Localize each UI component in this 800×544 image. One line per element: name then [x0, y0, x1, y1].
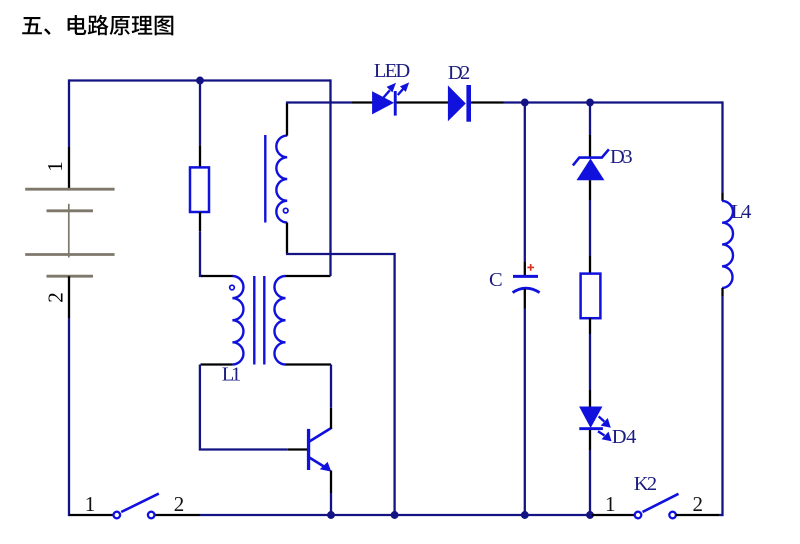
- zener diode D3 cathode bar with bent ends: [573, 149, 609, 165]
- pin: emitter pin stub (black): [330, 471, 332, 494]
- wire: D3 branch upper (navy): [589, 103, 591, 136]
- svg-text:L1: L1: [222, 363, 242, 385]
- svg-text:2: 2: [693, 492, 704, 516]
- wire: top distribution rail to L4 branch: [504, 101, 723, 103]
- inductor: feedback winding (4 turns, bumps facing left): [276, 136, 287, 223]
- node: junction dot D4 branch to rail: [586, 511, 594, 519]
- diode D2 cathode bar: [466, 85, 471, 122]
- title 五、电路原理图: [22, 15, 173, 36]
- pin: capacitor top pin stub (black): [524, 262, 526, 275]
- wire: emitter down to ground rail (navy): [330, 493, 332, 515]
- svg-text:K2: K2: [634, 473, 657, 495]
- wire: L4 branch upper (navy): [721, 101, 723, 193]
- svg-text:C: C: [489, 269, 503, 291]
- pin: D4 anode pin stub (black): [589, 390, 591, 407]
- battery B1 inner connector line: [68, 204, 70, 258]
- switch S1 contact circle 1: [114, 512, 121, 519]
- svg-text:D3: D3: [610, 146, 633, 168]
- pin: L1 right winding bottom lead (black): [286, 363, 332, 365]
- pin: R2 top pin stub (black): [589, 256, 591, 275]
- pin: D3 anode pin stub (black): [589, 180, 591, 200]
- svg-text:1: 1: [85, 492, 96, 516]
- capacitor C positive plate: [513, 275, 538, 278]
- switch K2 contact circle 1: [635, 512, 642, 519]
- LED D4 triangle (pointing down): [579, 407, 602, 429]
- svg-text:L4: L4: [731, 201, 751, 223]
- node: junction dot capacitor to rail: [521, 511, 529, 519]
- wire: battery negative lead down to ground rail (navy): [68, 318, 70, 516]
- LED cathode bar: [394, 91, 397, 116]
- switch S1 contact circle 2: [148, 512, 155, 519]
- wire: collector up to L1 right winding bottom (navy): [330, 365, 332, 408]
- wire: capacitor branch upper (navy): [524, 103, 526, 263]
- battery B1 long plate 1: [25, 188, 114, 191]
- D4 emission arrow 2: [598, 431, 605, 435]
- pin: rail stub from D4 junction to switch K2 (black): [592, 514, 635, 516]
- wire: ground rail main run (navy): [200, 514, 592, 516]
- transistor Q1 emitter arrow head: [320, 462, 332, 472]
- wire: feedback winding top to LED (navy): [286, 101, 352, 103]
- red plus sign of polarized capacitor: [527, 264, 534, 271]
- svg-text:D2: D2: [448, 62, 470, 84]
- svg-text:1: 1: [43, 161, 67, 172]
- transformer L1 core line 2: [263, 276, 265, 365]
- wire: D4 to ground rail (navy): [589, 450, 591, 515]
- node: junction dot feedback return to rail: [391, 511, 399, 519]
- battery B1 short plate 1: [47, 209, 94, 212]
- switch S1 blade: [121, 494, 159, 512]
- wire: capacitor bottom to ground rail (navy): [524, 309, 526, 516]
- zener diode D3 triangle (pointing up): [577, 159, 605, 181]
- pin: D3 cathode pin stub (black): [589, 135, 591, 158]
- wire: feedback winding bottom to right return branch: [286, 254, 395, 515]
- node: junction dot on top rail at resistor branch: [196, 77, 204, 85]
- wire: L1 left winding bottom down and right to transistor base: [200, 365, 288, 450]
- wire: battery positive lead (navy upper part): [68, 79, 70, 147]
- wire: resistor bottom down to L1 primary top corner: [200, 231, 203, 276]
- pin: battery negative pin stub (black): [68, 276, 70, 318]
- pin: resistor top pin stub (black): [199, 145, 201, 168]
- node: junction dot emitter to rail: [327, 511, 335, 519]
- resistor R1 (left bias resistor): [190, 167, 209, 212]
- svg-text:LED: LED: [374, 60, 410, 82]
- LED emission arrow 2: [398, 88, 404, 95]
- wire: top rail from battery + to transformer branch: [69, 79, 331, 81]
- wire: rail corner to L4 (navy): [719, 514, 723, 516]
- pin: L1 left winding bottom lead (black): [201, 363, 233, 365]
- switch K2 blade: [643, 494, 679, 512]
- svg-text:1: 1: [605, 492, 616, 516]
- wire: top rail corner down to L1 right winding top: [329, 79, 331, 276]
- pin: rail stub from K2 to L4 corner (black): [676, 514, 719, 516]
- pin: LED anode pin stub (black): [352, 101, 373, 103]
- LED D4 cathode bar: [579, 427, 603, 430]
- transistor Q1 base bar: [307, 429, 310, 470]
- battery B1 short plate 2: [47, 275, 94, 278]
- pin: battery positive pin stub (black): [68, 147, 70, 190]
- svg-text:D4: D4: [612, 426, 637, 448]
- D4 emission arrow 1: [599, 416, 605, 421]
- transformer L1 core line 1: [253, 276, 255, 365]
- inductor L1 left winding (4 turns, bumps facing core): [232, 276, 243, 364]
- pin: feedback winding bottom lead (black vertical): [286, 223, 288, 255]
- pin: D2 cathode pin stub (black): [471, 101, 504, 103]
- transformer feedback winding core line: [264, 135, 266, 223]
- wire: R2 to D4 (navy): [589, 334, 591, 390]
- pin: L4 bottom pin stub (black): [721, 288, 723, 296]
- polarity dot of feedback winding: [283, 208, 288, 213]
- pin: collector pin stub (black): [330, 408, 332, 429]
- switch K2 contact circle 2: [669, 512, 676, 519]
- resistor R2 (right branch): [581, 274, 601, 319]
- pin: L1 left winding top lead (black): [201, 275, 233, 277]
- polarity dot of L1 left winding: [230, 285, 235, 290]
- inductor L4 (4 turns, bumps right): [722, 201, 733, 288]
- wire: L4 bottom to ground rail corner (navy): [721, 296, 723, 516]
- node: junction dot at capacitor branch: [521, 99, 529, 107]
- pin: D4 cathode pin stub (black): [589, 430, 591, 450]
- pin: feedback winding top lead (black vertical): [286, 103, 288, 136]
- wire: junction to resistor R (navy): [199, 81, 201, 146]
- capacitor C negative curved plate: [513, 288, 540, 292]
- wire: D3 to resistor R2 (navy): [589, 200, 591, 256]
- diode D2 triangle: [448, 85, 466, 121]
- node: junction dot at D3 branch: [586, 99, 594, 107]
- pin: rail stub from switch S1 to navy run (black): [154, 514, 200, 516]
- pin: L4 top pin stub (black): [721, 193, 723, 201]
- transistor Q1 emitter stroke: [309, 457, 326, 468]
- svg-text:2: 2: [43, 292, 67, 303]
- LED main indicator diode triangle: [372, 91, 394, 114]
- pin: R2 bottom pin stub (black): [589, 318, 591, 334]
- wire: LED cathode to D2 anode (black): [397, 101, 448, 103]
- pin: resistor bottom pin stub (black): [199, 212, 201, 231]
- battery B1 long plate 2: [25, 253, 114, 256]
- pin: transistor base pin stub (black): [288, 448, 307, 450]
- pin: capacitor bottom pin stub (black): [524, 289, 526, 309]
- transistor Q1 collector stroke: [309, 428, 332, 442]
- inductor L1 right winding (4 turns, bumps facing core): [274, 276, 285, 364]
- LED emission arrow 1: [384, 90, 390, 97]
- svg-text:2: 2: [174, 492, 185, 516]
- pin: rail stub from battery corner to switch S1 (black): [69, 514, 114, 516]
- pin: L1 right winding top lead (black): [286, 275, 331, 277]
